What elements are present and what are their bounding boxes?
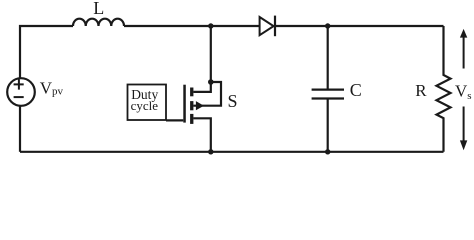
wire: body tie from drain dot to MOSFET middle lead bbox=[193, 82, 221, 106]
junction dot: capacitor node on top rail bbox=[325, 23, 330, 28]
svg-text:cycle: cycle bbox=[131, 98, 159, 113]
inductor L bbox=[73, 19, 124, 26]
resistor R with leads (right branch) bbox=[437, 26, 451, 152]
wire: left vertical (upper) + top rail left segment bbox=[20, 26, 73, 78]
capacitor C bottom lead bbox=[327, 99, 329, 152]
wire: left vertical (lower) bbox=[19, 106, 21, 152]
voltage source Vpv bbox=[7, 78, 35, 106]
svg-text:C: C bbox=[350, 80, 362, 100]
wire: top rail from diode to top-right corner bbox=[276, 25, 444, 27]
Vs up arrow bbox=[460, 29, 467, 69]
wire: source lead to bottom rail bbox=[193, 118, 210, 152]
wire: gate drive from duty cycle box to gate bar bbox=[166, 119, 183, 121]
svg-text:R: R bbox=[415, 81, 427, 100]
Vs down arrow bbox=[460, 107, 467, 151]
capacitor C top lead bbox=[327, 26, 329, 90]
wire: bottom rail bbox=[20, 151, 444, 153]
svg-text:L: L bbox=[93, 0, 104, 18]
duty cycle box bbox=[128, 85, 167, 121]
junction dot: capacitor node on bottom rail bbox=[325, 149, 330, 154]
wire: top rail from inductor to diode bbox=[124, 25, 260, 27]
junction dot: source node on bottom rail bbox=[208, 149, 213, 154]
capacitor C plates bbox=[312, 90, 344, 99]
MOSFET S body arrow bbox=[196, 102, 203, 109]
svg-text:S: S bbox=[228, 91, 238, 111]
MOSFET S channel bars bbox=[190, 88, 193, 124]
diode D1 bbox=[260, 16, 275, 37]
junction dot: body-tie tap on drain wire bbox=[208, 79, 214, 85]
wire: drain vertical from top rail to MOSFET top lead bbox=[193, 26, 210, 92]
junction dot: drain node on top rail bbox=[208, 23, 213, 28]
MOSFET S gate bar bbox=[183, 85, 186, 123]
